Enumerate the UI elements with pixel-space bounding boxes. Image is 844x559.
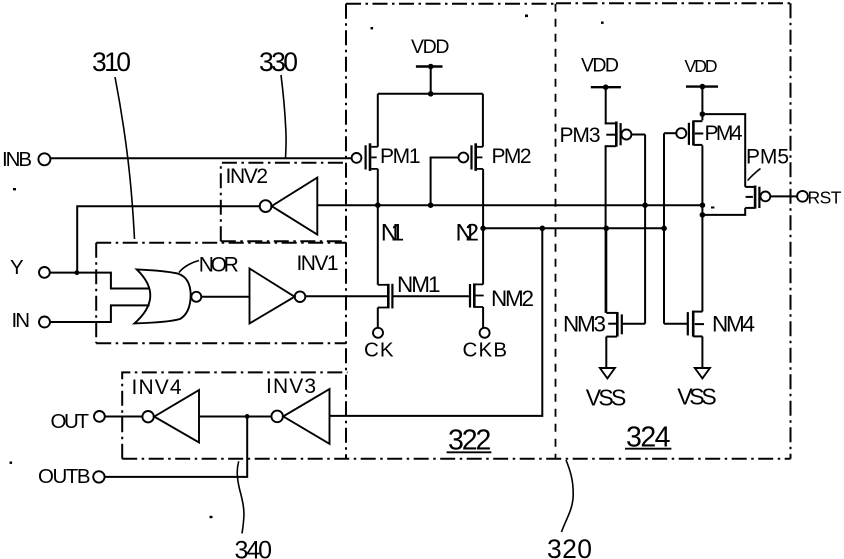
svg-text:IN: IN (12, 309, 31, 332)
svg-text:INV1: INV1 (297, 252, 339, 275)
svg-text:N1: N1 (381, 220, 405, 247)
svg-text:PM4: PM4 (705, 122, 743, 145)
svg-text:NM2: NM2 (491, 286, 534, 311)
svg-text:INV2: INV2 (226, 165, 269, 188)
svg-text:RST: RST (808, 188, 842, 208)
svg-text:PM5: PM5 (746, 146, 789, 169)
svg-text:340: 340 (235, 537, 273, 559)
svg-text:320: 320 (547, 534, 592, 559)
svg-text:NM4: NM4 (712, 312, 755, 337)
svg-text:PM1: PM1 (380, 145, 421, 168)
svg-text:NM1: NM1 (397, 272, 441, 297)
svg-text:OUT: OUT (51, 410, 90, 433)
svg-text:330: 330 (259, 47, 298, 77)
svg-text:310: 310 (92, 47, 131, 77)
svg-text:CKB: CKB (463, 339, 508, 362)
svg-text:OUTB: OUTB (38, 465, 91, 488)
svg-text:INV3: INV3 (266, 375, 316, 398)
svg-text:NOR: NOR (199, 254, 239, 277)
svg-text:INV4: INV4 (132, 376, 182, 399)
svg-text:Y: Y (10, 256, 24, 279)
svg-text:PM3: PM3 (560, 124, 601, 147)
svg-text:VDD: VDD (685, 56, 718, 76)
svg-text:CK: CK (364, 339, 394, 362)
svg-text:N2: N2 (456, 220, 480, 247)
svg-text:VSS: VSS (586, 385, 627, 411)
svg-text:PM2: PM2 (492, 145, 532, 168)
svg-text:VDD: VDD (581, 55, 619, 77)
svg-text:VDD: VDD (411, 36, 450, 58)
svg-text:VSS: VSS (677, 384, 717, 410)
svg-text:INB: INB (2, 148, 32, 171)
svg-text:NM3: NM3 (563, 312, 606, 337)
